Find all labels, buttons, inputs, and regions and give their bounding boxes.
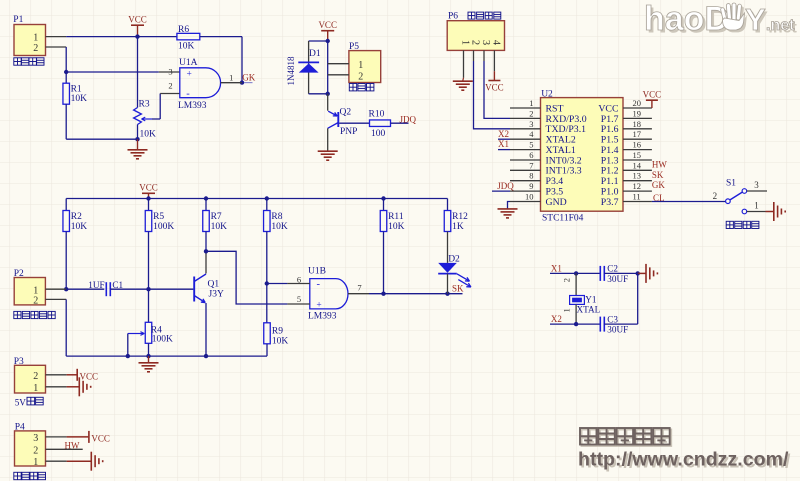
svg-text:VCC: VCC (598, 103, 618, 114)
svg-text:1: 1 (754, 201, 759, 211)
svg-text:10K: 10K (211, 222, 228, 232)
svg-text:1: 1 (33, 33, 38, 44)
svg-text:11: 11 (633, 192, 641, 202)
svg-text:JDQ: JDQ (400, 114, 417, 124)
svg-text:-: - (317, 279, 321, 290)
svg-text:S1: S1 (726, 178, 736, 188)
svg-text:30UF: 30UF (607, 274, 628, 284)
svg-text:100K: 100K (152, 335, 173, 345)
svg-text:1: 1 (358, 60, 363, 71)
svg-text:10: 10 (525, 192, 534, 202)
svg-text:HW: HW (65, 440, 80, 450)
svg-text:haoD: haoD (644, 0, 729, 38)
svg-text:P1.7: P1.7 (601, 114, 619, 125)
svg-text:4: 4 (491, 40, 502, 46)
svg-text:R11: R11 (388, 212, 404, 222)
svg-text:C3: C3 (607, 314, 618, 324)
svg-text:-: - (186, 89, 190, 100)
svg-text:7: 7 (357, 282, 361, 292)
svg-text:http://www.cndzz.com/: http://www.cndzz.com/ (578, 449, 789, 471)
svg-text:P3.7: P3.7 (601, 197, 619, 208)
svg-text:1: 1 (33, 383, 38, 394)
svg-text:R3: R3 (139, 100, 150, 110)
svg-text:9: 9 (529, 181, 533, 191)
svg-text:U1B: U1B (308, 267, 326, 277)
svg-text:2: 2 (470, 40, 481, 45)
svg-text:10K: 10K (71, 222, 88, 232)
svg-text:X1: X1 (551, 264, 562, 274)
svg-text:SK: SK (452, 284, 464, 294)
svg-text:12: 12 (633, 181, 642, 191)
svg-text:R7: R7 (211, 212, 222, 222)
svg-text:VCC: VCC (318, 20, 337, 30)
svg-text:X1: X1 (498, 139, 509, 149)
svg-text:R8: R8 (271, 212, 282, 222)
svg-text:5V: 5V (15, 397, 27, 407)
svg-text:19: 19 (633, 108, 642, 118)
svg-text:X2: X2 (498, 129, 509, 139)
svg-text:P3: P3 (14, 357, 24, 367)
svg-text:XTAL2: XTAL2 (546, 135, 576, 146)
svg-text:10K: 10K (271, 222, 288, 232)
svg-text:SK: SK (652, 170, 664, 180)
svg-text:2: 2 (713, 191, 718, 201)
svg-text:1: 1 (33, 457, 38, 468)
svg-text:VCC: VCC (643, 90, 662, 100)
svg-text:10K: 10K (140, 130, 157, 140)
svg-text:6: 6 (529, 150, 533, 160)
svg-text:2: 2 (33, 43, 38, 54)
svg-text:R6: R6 (178, 25, 189, 35)
svg-text:X2: X2 (551, 314, 562, 324)
svg-text:+: + (316, 301, 321, 311)
svg-text:P1.4: P1.4 (601, 145, 619, 156)
svg-text:1: 1 (460, 40, 471, 45)
svg-text:P1: P1 (13, 15, 23, 25)
svg-text:Q1: Q1 (208, 279, 220, 289)
svg-text:D2: D2 (448, 254, 460, 264)
svg-text:P3.4: P3.4 (546, 176, 564, 187)
svg-text:3: 3 (480, 40, 491, 45)
svg-text:30UF: 30UF (607, 324, 628, 334)
svg-text:LM393: LM393 (308, 312, 337, 322)
svg-text:LM393: LM393 (178, 101, 207, 111)
svg-text:7: 7 (529, 160, 533, 170)
svg-text:VCC: VCC (128, 15, 147, 25)
svg-text:U2: U2 (541, 89, 553, 99)
svg-text:R12: R12 (452, 212, 468, 222)
svg-text:R2: R2 (71, 212, 82, 222)
svg-text:5: 5 (529, 140, 533, 150)
svg-text:3: 3 (754, 180, 759, 190)
svg-text:P1.6: P1.6 (601, 124, 619, 135)
svg-text:VCC: VCC (139, 183, 158, 193)
svg-text:D1: D1 (309, 49, 321, 59)
svg-text:2: 2 (168, 81, 172, 91)
svg-text:R1: R1 (71, 84, 82, 94)
svg-text:13: 13 (633, 171, 642, 181)
svg-text:P1.5: P1.5 (601, 135, 619, 146)
svg-text:17: 17 (633, 129, 642, 139)
svg-text:P2: P2 (14, 269, 24, 279)
svg-text:P3.5: P3.5 (546, 187, 564, 198)
svg-text:VCC: VCC (80, 371, 99, 381)
svg-text:R5: R5 (153, 212, 164, 222)
svg-text:20: 20 (633, 98, 642, 108)
svg-text:P4: P4 (15, 423, 25, 433)
svg-text:15: 15 (633, 150, 642, 160)
svg-text:J3Y: J3Y (209, 289, 224, 299)
svg-text:JDQ: JDQ (497, 181, 514, 191)
svg-text:P1.0: P1.0 (601, 187, 619, 198)
svg-text:18: 18 (633, 119, 642, 129)
svg-text:C2: C2 (607, 264, 618, 274)
svg-text:R9: R9 (272, 326, 283, 336)
svg-text:100K: 100K (153, 222, 174, 232)
svg-text:HW: HW (652, 159, 667, 169)
svg-text:PNP: PNP (340, 127, 357, 137)
svg-text:3: 3 (529, 119, 533, 129)
svg-text:5: 5 (297, 294, 301, 304)
svg-text:1N4818: 1N4818 (286, 56, 296, 85)
svg-text:1: 1 (229, 72, 233, 82)
svg-text:1: 1 (529, 98, 533, 108)
svg-text:2: 2 (33, 371, 38, 382)
svg-text:16: 16 (633, 140, 642, 150)
svg-text:1K: 1K (452, 222, 464, 232)
svg-text:P6: P6 (448, 12, 458, 22)
svg-text:2: 2 (33, 296, 38, 307)
svg-text:INT1/3.3: INT1/3.3 (546, 166, 582, 177)
svg-text:XTAL: XTAL (577, 304, 601, 314)
svg-text:U1A: U1A (179, 58, 198, 68)
svg-text:.net: .net (766, 17, 795, 34)
svg-text:2: 2 (33, 445, 38, 456)
svg-text:GK: GK (652, 180, 665, 190)
svg-text:1UF: 1UF (88, 280, 104, 290)
svg-text:Q2: Q2 (340, 107, 352, 117)
svg-text:100: 100 (371, 129, 386, 139)
svg-text:P5: P5 (349, 42, 359, 52)
svg-text:P1.1: P1.1 (601, 176, 619, 187)
svg-text:3: 3 (168, 67, 172, 77)
svg-text:2: 2 (358, 71, 363, 82)
svg-text:VCC: VCC (485, 83, 504, 93)
svg-text:+: + (187, 69, 192, 79)
svg-text:P1.2: P1.2 (601, 166, 619, 177)
svg-text:1: 1 (562, 308, 572, 312)
svg-text:RXD/P3.0: RXD/P3.0 (546, 114, 587, 125)
svg-text:2: 2 (562, 278, 572, 282)
svg-text:2: 2 (529, 108, 533, 118)
svg-text:10K: 10K (388, 222, 405, 232)
svg-text:8: 8 (529, 171, 533, 181)
svg-text:TXD/P3.1: TXD/P3.1 (546, 124, 587, 135)
svg-text:VCC: VCC (91, 433, 110, 443)
svg-text:Y1: Y1 (585, 294, 597, 304)
svg-text:10K: 10K (178, 42, 195, 52)
svg-text:RST: RST (546, 103, 564, 114)
svg-text:14: 14 (633, 160, 642, 170)
svg-text:STC11F04: STC11F04 (542, 214, 584, 224)
svg-text:Y: Y (745, 2, 766, 37)
svg-text:GK: GK (242, 72, 255, 82)
svg-text:R10: R10 (369, 110, 385, 120)
svg-text:3: 3 (33, 433, 38, 444)
svg-text:10K: 10K (272, 336, 289, 346)
svg-text:GND: GND (546, 197, 567, 208)
svg-text:10K: 10K (71, 94, 88, 104)
svg-text:XTAL1: XTAL1 (546, 145, 576, 156)
